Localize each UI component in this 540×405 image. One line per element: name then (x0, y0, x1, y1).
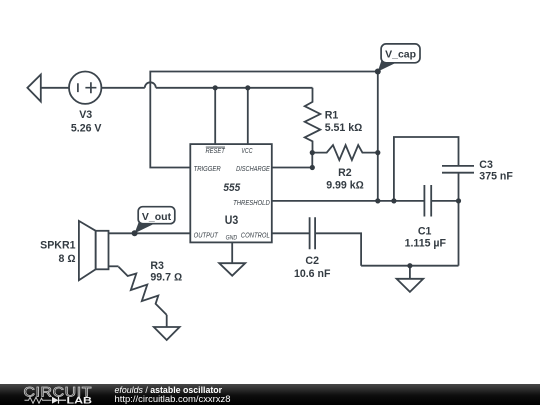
svg-text:5.26 V: 5.26 V (71, 123, 102, 135)
svg-text:DISCHARGE: DISCHARGE (236, 164, 270, 173)
svg-text:C2: C2 (305, 255, 319, 267)
svg-text:TRIGGER: TRIGGER (194, 164, 222, 173)
svg-text:THRESHOLD: THRESHOLD (233, 198, 270, 207)
svg-text:8 Ω: 8 Ω (59, 253, 76, 265)
svg-text:V_out: V_out (142, 211, 172, 223)
svg-text:R1: R1 (325, 109, 339, 121)
svg-text:R3: R3 (150, 260, 164, 272)
svg-text:LAB: LAB (67, 396, 93, 405)
svg-text:99.7 Ω: 99.7 Ω (150, 271, 182, 283)
svg-text:GND: GND (226, 235, 238, 242)
svg-text:CONTROL: CONTROL (241, 230, 270, 239)
svg-text:1.115 µF: 1.115 µF (405, 237, 447, 249)
svg-text:SPKR1: SPKR1 (40, 240, 75, 252)
svg-text:V_cap: V_cap (385, 49, 416, 61)
svg-text:OUTPUT: OUTPUT (194, 230, 219, 239)
svg-text:http://circuitlab.com/cxxrxz8: http://circuitlab.com/cxxrxz8 (115, 394, 231, 404)
svg-text:5.51 kΩ: 5.51 kΩ (325, 122, 363, 134)
svg-text:C1: C1 (418, 225, 432, 237)
svg-text:R2: R2 (338, 167, 352, 179)
svg-text:C3: C3 (479, 159, 493, 171)
svg-text:10.6 nF: 10.6 nF (294, 268, 331, 280)
svg-text:555: 555 (223, 182, 241, 194)
svg-text:VCC: VCC (241, 146, 253, 155)
svg-text:375 nF: 375 nF (479, 170, 513, 182)
svg-text:U3: U3 (225, 215, 239, 227)
svg-text:V3: V3 (79, 109, 92, 121)
svg-text:9.99 kΩ: 9.99 kΩ (326, 179, 364, 191)
